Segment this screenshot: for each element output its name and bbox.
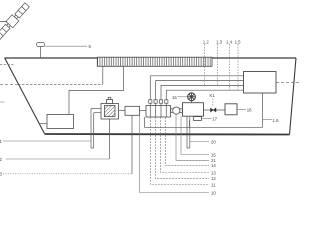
svg-text:2: 2 (0, 157, 3, 162)
manifold (146, 106, 171, 118)
pipe with valve K1 (204, 109, 226, 111)
antenna 5 (37, 43, 45, 47)
main box (183, 103, 204, 117)
valve stubs (149, 100, 168, 103)
svg-text:1.6: 1.6 (273, 118, 280, 123)
svg-text:14: 14 (211, 163, 216, 168)
svg-text:13: 13 (211, 170, 216, 175)
hull bottom (45, 133, 290, 136)
svg-text:1: 1 (0, 139, 3, 144)
leader to label 5 (41, 45, 87, 47)
box17 drain wire (189, 120, 191, 127)
probe wires under main box (186, 116, 188, 148)
leader label 1 (3, 140, 91, 142)
filter box (125, 106, 140, 115)
leader 16 right (263, 119, 273, 121)
filter bottom wire + dotted leader label 3 (131, 115, 133, 174)
motor (hatched box) (101, 104, 119, 120)
satellite leader line (0, 20, 7, 22)
motor left wires (91, 108, 101, 110)
svg-text:3: 3 (0, 172, 3, 177)
svg-text:17: 17 (212, 117, 217, 122)
upper left dashed stub (0, 64, 14, 66)
svg-text:20: 20 (211, 139, 216, 144)
svg-text:18: 18 (247, 108, 252, 113)
pump bottom wire to 21 (176, 114, 209, 160)
svg-text:15: 15 (211, 152, 216, 157)
probe under hull left (90, 109, 92, 149)
svg-text:10: 10 (211, 190, 216, 195)
manifold bottom wires to labels 11-14 (151, 117, 209, 185)
alarm circle 16 (188, 93, 196, 101)
pump (171, 109, 173, 113)
bar wire down-left (102, 66, 104, 84)
svg-text:1.2: 1.2 (203, 40, 210, 45)
waterline stub lower left (0, 101, 5, 103)
svg-text:11: 11 (211, 182, 216, 187)
wire to label 15 (181, 116, 209, 154)
top label leaders 12-15 (205, 44, 239, 91)
tank box bottom-left (47, 115, 74, 129)
bus wires to control box (150, 76, 243, 100)
bottom pipe loop (145, 93, 263, 127)
bow slope (5, 58, 45, 134)
svg-text:1.4: 1.4 (226, 40, 233, 45)
tank inlet wire (39, 123, 47, 125)
svg-text:16: 16 (172, 95, 177, 100)
leader 20 (190, 141, 209, 143)
satellite (0, 2, 31, 41)
bar wire to tank (69, 66, 124, 114)
waterline right dashes (276, 81, 300, 83)
stern slope (290, 58, 297, 135)
svg-text:1.3: 1.3 (216, 40, 223, 45)
hatched deck bar (97, 57, 212, 66)
svg-text:12: 12 (211, 176, 216, 181)
svg-text:K1: K1 (210, 93, 216, 98)
box 17 (194, 117, 202, 121)
box 18 (225, 104, 237, 115)
control box (244, 72, 277, 94)
motor bottom wire + leader label 2 (109, 119, 111, 159)
deck line (5, 57, 297, 59)
wire to label 10 (140, 116, 209, 193)
waterline left dashes (0, 83, 18, 85)
svg-text:1.5: 1.5 (235, 40, 242, 45)
svg-text:5: 5 (89, 44, 92, 49)
